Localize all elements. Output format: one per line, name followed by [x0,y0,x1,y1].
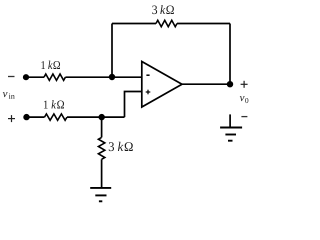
value label 3 kOhm (Rf) [152,5,174,14]
wire feedback right vertical down to output node [229,24,231,85]
value label 3 kOhm (R3) [109,142,133,151]
wire feedback top right segment [177,23,230,25]
output node dot [227,81,233,87]
wire R3 to ground [101,159,103,188]
op-amp inverting input marker [146,74,149,76]
value label 1 kOhm (R1) [41,61,60,69]
op-amp U1 [142,62,182,108]
value label 1 kOhm (R2) [44,100,64,108]
resistor R1 1 kOhm (top input) [44,74,65,80]
minus sign at output (near ground) [241,116,247,118]
wire from R2 to node B [67,116,125,118]
ground (left) [90,188,111,201]
label v_in [3,92,15,99]
wire node B down to resistor R3 [101,117,103,137]
node A junction dot [109,74,115,80]
wire node A up to feedback branch [111,24,113,78]
resistor R3 3 kOhm (to ground) [98,137,104,159]
resistor Rf 3 kOhm (feedback) [156,20,177,26]
plus sign at output [241,81,248,88]
node B junction dot [99,114,105,120]
ground (right, output reference) [220,114,242,140]
wire op-amp output to output node [182,83,230,85]
wire from top terminal to resistor R1 [26,76,44,78]
terminal dot (noninverting input, bottom left) [23,114,29,120]
plus sign of input terminal (bottom left) [8,115,15,122]
wire node B up-right to op-amp noninverting input [125,92,143,118]
wire from R1 to node A and op-amp inverting input [65,76,142,78]
minus sign of input terminal (top left) [8,76,15,78]
terminal dot (inverting input, top left) [23,74,29,80]
op-amp noninverting input marker [146,90,151,95]
wire from bottom terminal to resistor R2 [27,116,45,118]
label v_o [240,96,249,103]
resistor R2 1 kOhm (bottom input) [45,114,68,120]
wire feedback top left segment [112,23,156,25]
